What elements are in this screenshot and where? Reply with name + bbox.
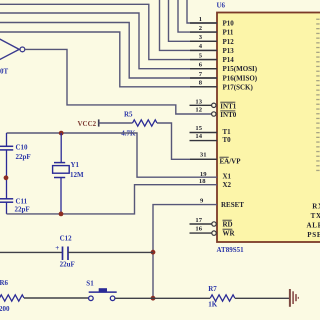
IC U6 AT89S51 body	[217, 13, 320, 243]
svg-text:RD: RD	[223, 221, 233, 229]
svg-text:22uF: 22uF	[60, 261, 75, 269]
wire pin7 net from left edge	[0, 23, 217, 79]
svg-text:P16(MISO): P16(MISO)	[223, 75, 258, 83]
svg-text:P13: P13	[223, 47, 235, 55]
svg-text:Y1: Y1	[71, 161, 80, 169]
svg-text:PSEN: PSEN	[307, 231, 320, 239]
svg-text:T0: T0	[223, 136, 232, 144]
crystal Y1 bottom bar	[54, 177, 65, 179]
svg-text:19: 19	[200, 171, 207, 178]
ground symbol	[289, 289, 299, 307]
svg-text:15: 15	[195, 125, 202, 132]
svg-text:12: 12	[195, 107, 202, 114]
svg-text:C10: C10	[16, 144, 29, 152]
svg-text:22pF: 22pF	[15, 206, 30, 214]
resistor R5	[133, 120, 158, 126]
svg-text:13: 13	[195, 99, 202, 106]
right side labels clipped	[307, 202, 320, 239]
C11 bottom lead	[6, 202, 8, 214]
capacitor C10 top lead	[6, 133, 8, 146]
overline INT0	[220, 110, 235, 112]
svg-text:P12: P12	[223, 38, 235, 46]
svg-text:U6: U6	[217, 2, 226, 10]
wire pin2 net from top edge	[178, 0, 217, 32]
wire pin4 net from top edge	[160, 0, 218, 50]
svg-text:X1: X1	[223, 172, 232, 180]
svg-text:S1: S1	[86, 280, 94, 288]
wire pin5 net from left edge	[0, 4, 217, 59]
resistor R6 (clipped at left)	[0, 295, 24, 301]
junction node crystal top	[59, 131, 64, 136]
svg-text:12M: 12M	[70, 171, 84, 179]
inverter gate (clipped at left)	[0, 37, 19, 63]
pin 15 stub T1	[190, 132, 218, 134]
overline WR	[223, 228, 233, 230]
wire pin3 net from top edge	[169, 0, 218, 41]
wire pin1 net from top edge	[187, 0, 217, 23]
wire S1 to reset node	[115, 297, 153, 299]
svg-text:1K: 1K	[208, 300, 218, 308]
pin numbers left side	[195, 16, 207, 233]
pin 17 stub RD	[190, 223, 212, 225]
svg-text:R7: R7	[208, 285, 217, 293]
crystal Y1 top bar	[54, 162, 65, 164]
svg-text:C12: C12	[60, 235, 73, 243]
svg-text:RXD: RXD	[312, 202, 320, 210]
wire R7 to ground	[235, 297, 289, 299]
svg-text:31: 31	[200, 152, 207, 159]
svg-text:P15(MOSI): P15(MOSI)	[223, 65, 258, 73]
wire pin6 net from left edge	[0, 13, 217, 69]
overline INT1	[220, 101, 235, 103]
switch S1 right contact	[110, 296, 115, 301]
switch S1 left contact	[89, 296, 94, 301]
wire X2 net rail	[7, 185, 218, 214]
crystal Y1 body	[53, 166, 70, 174]
svg-text:T1: T1	[223, 128, 232, 136]
C10 bottom lead	[6, 150, 8, 199]
resistor R7	[210, 295, 235, 301]
capacitor C11 plates	[0, 198, 13, 200]
svg-text:WR: WR	[223, 230, 236, 238]
capacitor C12 plates	[62, 247, 64, 261]
svg-text:22pF: 22pF	[16, 153, 31, 161]
pin stubs P1 port dark	[190, 23, 217, 87]
wire reset node to R7	[153, 297, 210, 299]
svg-text:200: 200	[0, 305, 10, 313]
wire crystal top / X1 net	[7, 133, 218, 177]
junction node S1/reset	[151, 296, 156, 301]
pin 31 stub dark	[190, 158, 217, 160]
pin 16 stub WR	[190, 232, 212, 234]
svg-text:14: 14	[195, 133, 202, 140]
svg-text:18: 18	[199, 178, 206, 185]
pin 17 bubble	[212, 222, 216, 226]
capacitor C10 plates	[0, 145, 13, 147]
svg-text:R6: R6	[0, 279, 9, 287]
wire pin8 net from left edge	[0, 32, 217, 87]
svg-text:0T: 0T	[0, 67, 9, 75]
junction node C12/reset	[151, 250, 156, 255]
overline RD	[223, 219, 232, 221]
svg-text:P17(SCK): P17(SCK)	[223, 83, 254, 91]
svg-text:R5: R5	[124, 110, 133, 118]
crystal Y1 top lead	[60, 133, 62, 163]
svg-text:17: 17	[195, 217, 202, 224]
svg-text:1: 1	[199, 16, 202, 23]
svg-text:EA/VP: EA/VP	[220, 157, 242, 165]
pin 12 bubble	[212, 112, 216, 116]
svg-text:RESET: RESET	[221, 201, 244, 209]
svg-text:P14: P14	[223, 56, 235, 64]
svg-text:16: 16	[195, 226, 202, 233]
capacitor C12 left wire	[0, 251, 63, 253]
svg-text:TXD: TXD	[311, 212, 320, 220]
svg-text:INT0: INT0	[220, 111, 236, 119]
wire R5 to pin31 EA/VP	[157, 123, 217, 159]
wire R6 to S1	[24, 297, 88, 299]
overline EA	[220, 156, 229, 158]
junction node crystal bottom	[59, 212, 64, 217]
pin name labels inside IC	[220, 20, 258, 238]
crystal Y1 bottom lead	[60, 178, 62, 214]
VCC2 port bar	[98, 119, 100, 126]
svg-text:ALE/P: ALE/P	[307, 221, 320, 229]
inverter output bubble	[20, 47, 25, 52]
pin 13 bubble	[212, 103, 216, 107]
svg-text:VCC2: VCC2	[78, 120, 97, 128]
pin 13 stub INT1	[190, 104, 212, 106]
pin 16 bubble	[212, 231, 216, 235]
wire inverter output to INT0	[25, 49, 212, 114]
right edge pin tick marks	[316, 19, 319, 172]
wire VCC2 to R5	[99, 122, 133, 124]
switch S1 actuator	[99, 288, 107, 292]
svg-text:AT89S51: AT89S51	[217, 246, 245, 254]
junction node C10/C11	[4, 175, 9, 180]
switch S1 bar	[89, 291, 117, 293]
wire C12 to reset node	[68, 251, 153, 253]
pin 14 stub T0	[190, 140, 218, 142]
svg-text:P11: P11	[223, 29, 234, 37]
svg-text:INT1: INT1	[220, 102, 236, 110]
wire RESET net	[153, 205, 217, 299]
svg-text:X2: X2	[223, 181, 232, 189]
svg-text:P10: P10	[223, 20, 235, 28]
svg-text:+: +	[55, 244, 59, 252]
svg-text:C11: C11	[16, 198, 28, 206]
